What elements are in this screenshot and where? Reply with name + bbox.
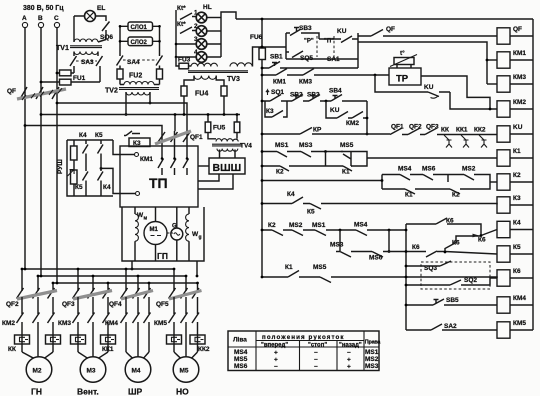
svg-text:MS2: MS2 <box>365 356 379 363</box>
svg-text:+: + <box>274 357 278 364</box>
bus L2 <box>38 275 186 277</box>
motor М4 <box>126 352 133 358</box>
svg-text:К5: К5 <box>513 244 521 251</box>
motor М3 <box>78 352 88 358</box>
svg-text:QF5: QF5 <box>156 301 169 308</box>
svg-text:SQ2: SQ2 <box>464 277 477 284</box>
svg-text:FU6: FU6 <box>250 34 263 41</box>
coil КМ3 <box>497 76 510 92</box>
svg-text:КК: КК <box>8 346 16 353</box>
svg-text:К2: К2 <box>513 172 521 179</box>
svg-text:MS4: MS4 <box>234 349 248 356</box>
svg-text:KU: KU <box>337 28 347 35</box>
wire KM2 rail <box>375 75 497 109</box>
coil КМ1 <box>497 52 510 68</box>
motor branch М3 <box>77 269 79 291</box>
wire lamp loop <box>74 16 106 21</box>
svg-text:−: − <box>314 357 318 364</box>
svg-text:ТП: ТП <box>149 175 168 191</box>
lamp bus left <box>175 10 177 57</box>
wire phase B <box>40 28 42 276</box>
svg-text:QF: QF <box>386 26 395 33</box>
svg-text:KU: KU <box>513 124 523 131</box>
svg-text:КК1: КК1 <box>456 127 468 134</box>
coil КМ2 <box>497 101 510 117</box>
svg-text:g: g <box>199 235 202 241</box>
wire VShSh to TP <box>198 165 209 167</box>
svg-text:КМ1: КМ1 <box>513 50 526 57</box>
svg-text:QF1: QF1 <box>391 124 404 131</box>
box K1 aux <box>351 152 367 167</box>
coil KU <box>497 126 510 142</box>
svg-text:FU4: FU4 <box>195 91 208 98</box>
thyristor converter TP box <box>120 146 198 207</box>
wire SLO left <box>120 26 128 56</box>
svg-text:К4: К4 <box>513 219 521 226</box>
wire phase A <box>24 28 26 269</box>
svg-text:MS6: MS6 <box>422 166 436 173</box>
svg-text:HL: HL <box>203 4 212 11</box>
svg-text:SQ1: SQ1 <box>271 89 284 96</box>
svg-text:КМ5: КМ5 <box>154 320 167 327</box>
svg-text:MS1: MS1 <box>365 349 379 356</box>
svg-text:КК2: КК2 <box>198 346 210 353</box>
coil К6 <box>497 270 510 286</box>
coil К2 <box>497 174 510 190</box>
svg-text:SB3: SB3 <box>299 25 312 32</box>
motor branch М4 <box>125 269 127 291</box>
motor М5 <box>174 352 181 358</box>
wire SLO right <box>153 26 160 56</box>
svg-text:SA2: SA2 <box>444 323 457 330</box>
svg-text:К6: К6 <box>513 268 521 275</box>
svg-text:Права: Права <box>365 340 382 346</box>
svg-text:QF3: QF3 <box>62 301 75 308</box>
motor M1 <box>144 222 167 245</box>
svg-text:М4: М4 <box>132 368 141 375</box>
svg-text:FU1: FU1 <box>73 75 86 82</box>
svg-text:В: В <box>38 15 43 22</box>
node X367 <box>366 101 368 134</box>
wire K5 subrow <box>339 230 341 251</box>
svg-text:КК: КК <box>441 127 449 134</box>
box SLO2 <box>128 37 153 46</box>
coil КМ5 <box>497 322 510 338</box>
control top wire <box>236 18 533 20</box>
svg-text:QF4: QF4 <box>109 301 122 308</box>
node TP input circles <box>135 153 139 157</box>
wire phase C <box>56 28 58 283</box>
svg-text:380 В, 50 Гц: 380 В, 50 Гц <box>23 5 64 12</box>
contact K3 with box <box>129 138 150 147</box>
coil К1 <box>497 150 510 166</box>
bus L3 <box>53 282 198 284</box>
left control rail <box>261 60 263 278</box>
svg-text:К5: К5 <box>307 209 315 216</box>
svg-text:"стоп": "стоп" <box>308 342 327 348</box>
svg-text:FU3: FU3 <box>178 57 191 64</box>
svg-text:К4: К4 <box>287 191 295 198</box>
wire TR right <box>421 76 490 109</box>
svg-text:SB1: SB1 <box>270 54 283 61</box>
wire to K1 coil <box>367 157 497 159</box>
branch MS4 MS6 MS2 <box>382 175 405 190</box>
svg-text:СЛО1: СЛО1 <box>131 25 148 31</box>
svg-text:MS3: MS3 <box>299 142 313 149</box>
svg-text:TV2: TV2 <box>105 88 118 95</box>
svg-text:MS5: MS5 <box>340 142 354 149</box>
svg-text:К1: К1 <box>513 148 521 155</box>
GP frame <box>122 207 204 261</box>
svg-text:MS2: MS2 <box>289 222 303 229</box>
svg-text:М5: М5 <box>180 368 189 375</box>
box SLO1 <box>128 22 153 31</box>
svg-text:MS3: MS3 <box>330 242 344 249</box>
svg-text:К5: К5 <box>95 132 103 139</box>
svg-text:SQ5: SQ5 <box>300 55 313 62</box>
svg-text:SB4: SB4 <box>329 88 342 95</box>
svg-text:К2: К2 <box>268 222 276 229</box>
svg-text:К4: К4 <box>79 132 87 139</box>
svg-text:QF3: QF3 <box>426 124 439 131</box>
svg-text:КМ3: КМ3 <box>513 74 526 81</box>
svg-text:КМ3: КМ3 <box>58 320 71 327</box>
svg-text:+: + <box>347 364 351 371</box>
svg-text:К5: К5 <box>75 184 83 191</box>
svg-text:KU: KU <box>424 84 434 91</box>
svg-text:SA3: SA3 <box>81 59 94 66</box>
svg-text:"Р": "Р" <box>304 39 314 45</box>
wire to KM1 KM3 coils <box>358 42 487 84</box>
svg-text:MS1: MS1 <box>312 222 326 229</box>
svg-text:MS4: MS4 <box>398 166 412 173</box>
svg-text:MS6: MS6 <box>234 363 248 370</box>
wire to K2 coil <box>490 181 497 183</box>
coil QF <box>497 28 510 44</box>
svg-text:TV3: TV3 <box>227 76 240 83</box>
svg-text:К3: К3 <box>133 140 141 147</box>
right bus <box>532 19 534 330</box>
svg-text:−: − <box>347 349 351 356</box>
svg-text:"вперед": "вперед" <box>261 342 288 348</box>
svg-text:РУШ: РУШ <box>57 159 64 174</box>
coil К4 <box>497 221 510 237</box>
wire GP to bus <box>131 261 133 269</box>
dashed gate SQ3 SQ2 <box>421 262 490 289</box>
table handles <box>228 331 379 371</box>
svg-text:MS1: MS1 <box>275 142 289 149</box>
svg-text:SA1: SA1 <box>327 56 340 63</box>
svg-text:КМ4: КМ4 <box>513 295 526 302</box>
coil К5 <box>497 246 510 262</box>
svg-text:КМ1: КМ1 <box>273 79 286 86</box>
svg-text:К2: К2 <box>276 169 284 176</box>
svg-text:QF: QF <box>7 88 16 95</box>
svg-text:FU5: FU5 <box>213 125 226 132</box>
svg-text:К3: К3 <box>513 195 521 202</box>
svg-text:КК2: КК2 <box>474 127 486 134</box>
svg-text:QF2: QF2 <box>6 301 19 308</box>
svg-text:К3: К3 <box>266 108 274 115</box>
svg-text:КМ5: КМ5 <box>513 320 526 327</box>
coil КМ4 <box>497 297 510 313</box>
svg-text:К4: К4 <box>103 184 111 191</box>
lamp bus right <box>221 12 236 57</box>
svg-text:КМ1: КМ1 <box>140 156 153 163</box>
feed line B tap <box>41 114 240 116</box>
svg-text:ТР: ТР <box>396 74 409 85</box>
thermal relay TR box <box>389 68 421 85</box>
feed line A tap <box>25 126 162 132</box>
svg-text:М3: М3 <box>87 368 96 375</box>
svg-text:−: − <box>274 364 278 371</box>
svg-text:М2: М2 <box>33 368 42 375</box>
motor branch М5 <box>173 269 175 291</box>
svg-text:−: − <box>314 349 318 356</box>
shaft link <box>168 232 174 234</box>
svg-text:QF2: QF2 <box>409 124 422 131</box>
svg-text:"назад": "назад" <box>339 342 362 348</box>
rectifier VShSh <box>209 158 245 174</box>
svg-text:+: + <box>274 349 278 356</box>
svg-text:КМ2: КМ2 <box>346 120 359 127</box>
svg-text:Кt*: Кt* <box>177 21 186 28</box>
svg-text:СЛО2: СЛО2 <box>131 40 148 46</box>
svg-text:НО: НО <box>176 387 189 396</box>
svg-text:−: − <box>314 364 318 371</box>
svg-text:QF1: QF1 <box>190 134 203 141</box>
svg-text:QF: QF <box>513 26 522 33</box>
svg-text:А: А <box>22 15 27 22</box>
selector box wires <box>262 46 286 48</box>
svg-text:М1: М1 <box>150 227 159 233</box>
svg-text:К1: К1 <box>285 264 293 271</box>
svg-text:MS2: MS2 <box>462 166 476 173</box>
node K6 arrow <box>473 234 480 238</box>
wire MS6 branch drop <box>388 230 390 252</box>
svg-text:+: + <box>347 357 351 364</box>
svg-text:ШР: ШР <box>128 387 143 396</box>
svg-text:ВШШ: ВШШ <box>213 162 242 174</box>
svg-text:TV1: TV1 <box>56 45 69 52</box>
node X406 <box>405 224 407 330</box>
svg-text:К6: К6 <box>412 244 420 251</box>
svg-text:MS5: MS5 <box>234 356 248 363</box>
svg-text:MS3: MS3 <box>365 363 379 370</box>
svg-text:t°: t° <box>400 49 405 57</box>
svg-text:С: С <box>54 15 59 22</box>
svg-text:КР: КР <box>313 127 322 134</box>
svg-text:положения рукояток: положения рукояток <box>262 334 345 341</box>
svg-text:FU2: FU2 <box>129 73 142 80</box>
motor М2 <box>22 352 34 358</box>
svg-text:MS4: MS4 <box>354 222 368 229</box>
svg-text:ГП: ГП <box>157 251 168 261</box>
svg-text:КМ3: КМ3 <box>299 79 312 86</box>
svg-text:SB5: SB5 <box>446 297 459 304</box>
coil К3 <box>497 197 510 213</box>
svg-text:КМ4: КМ4 <box>105 320 118 327</box>
svg-text:м: м <box>144 216 148 222</box>
svg-text:ГН: ГН <box>31 387 42 396</box>
svg-text:KU: KU <box>330 107 340 114</box>
svg-text:Вент.: Вент. <box>77 387 99 396</box>
wire K2 feed <box>262 180 382 182</box>
svg-text:КМ2: КМ2 <box>513 99 526 106</box>
svg-text:Ліва: Ліва <box>233 336 247 344</box>
motor branch М2 <box>21 269 23 291</box>
bus L1 <box>22 268 174 270</box>
svg-text:Кt*: Кt* <box>177 5 186 12</box>
svg-text:КМ2: КМ2 <box>2 320 15 327</box>
vertical join <box>326 152 344 167</box>
svg-text:MS5: MS5 <box>313 264 327 271</box>
svg-text:К6: К6 <box>478 237 486 244</box>
feed line C tap <box>57 103 187 131</box>
svg-text:EL: EL <box>97 5 105 12</box>
